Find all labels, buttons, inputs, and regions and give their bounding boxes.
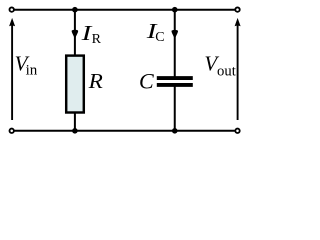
terminal: top-left open circle [10,7,14,11]
junction dot top bus / capacitor branch [172,7,178,13]
capacitor C: top plate [157,76,193,80]
wire: capacitor branch top [174,10,176,78]
svg-text:R: R [92,32,102,47]
current arrow IR (down) [72,30,78,39]
voltage arrow Vout (up) [235,18,241,120]
junction dot bottom bus / capacitor branch [172,128,178,134]
label Vin [15,52,38,79]
resistor R [66,56,84,113]
junction dot top bus / resistor branch [72,7,78,13]
label Vout [204,52,235,80]
svg-text:C: C [139,68,154,93]
wire: resistor branch bottom [74,114,76,131]
current arrow IC (down) [172,30,178,39]
svg-text:C: C [155,30,164,45]
wire: resistor branch top [74,10,76,55]
wire: top bus [14,9,234,11]
terminal: bottom-right open circle [235,129,239,133]
svg-text:in: in [26,63,38,79]
label IC [145,19,164,45]
label IR [80,21,101,47]
terminal: bottom-left open circle [10,129,14,133]
svg-text:out: out [217,64,236,80]
voltage arrow Vin (up) [9,18,15,120]
svg-text:R: R [87,69,102,93]
terminal: top-right open circle [235,7,239,11]
wire: bottom bus [14,130,234,132]
wire: capacitor branch bottom [174,85,176,131]
capacitor C: bottom plate [157,83,193,87]
junction dot bottom bus / resistor branch [72,128,78,134]
